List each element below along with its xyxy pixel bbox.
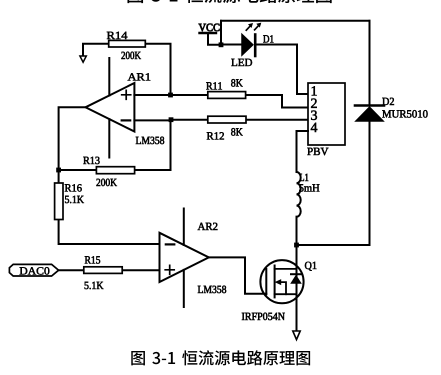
wire LED cathode xyxy=(255,44,297,46)
node VCC junction xyxy=(219,42,224,47)
value LM358 (AR1) xyxy=(136,137,141,144)
diode D2 xyxy=(355,21,428,245)
wire drain node to D2 xyxy=(297,244,370,246)
value 200K (R13) xyxy=(96,179,100,186)
net label VCC xyxy=(199,24,206,31)
wire LED anode xyxy=(221,44,242,46)
arrow terminal (R14 left) xyxy=(80,56,86,62)
node AR1 + input junction xyxy=(168,93,173,98)
resistor R12 xyxy=(171,116,308,139)
transistor Q1 xyxy=(242,245,317,340)
wire VCC vertical xyxy=(220,21,222,45)
value LM358 (AR2) xyxy=(198,286,203,293)
designator R16 xyxy=(65,184,72,191)
arrow terminal (Q1 source to ground) xyxy=(293,331,300,340)
designator R15 xyxy=(85,256,91,263)
node AR1 - input junction xyxy=(169,117,174,122)
node drain junction xyxy=(294,243,299,248)
wire AR1 + input xyxy=(134,94,168,96)
resistor R15 xyxy=(59,256,160,289)
designator AR2 xyxy=(198,223,206,230)
pin 1 xyxy=(312,86,317,95)
value 200K (R14) xyxy=(121,52,125,59)
value 8K (R12) xyxy=(231,128,235,135)
designator R14 xyxy=(107,32,115,39)
value IRFP054N (Q1) xyxy=(242,313,245,320)
wire AR1 output xyxy=(59,107,86,170)
connector PBV xyxy=(307,83,345,155)
wire to pin 1 xyxy=(297,45,308,95)
wire R11 to pin 2 xyxy=(282,95,308,108)
caption top cut-off xyxy=(127,0,331,3)
node AR1 output junction xyxy=(56,168,61,173)
op-amp AR2 xyxy=(160,209,227,308)
resistor R13 xyxy=(59,120,171,186)
wire AR1 - input xyxy=(134,119,168,121)
LED D1 xyxy=(231,23,273,66)
designator R13 xyxy=(83,157,89,164)
op-amp AR1 xyxy=(86,58,165,158)
wire top rail xyxy=(221,20,370,22)
wire AR2 output to gate xyxy=(209,257,266,293)
connector label PBV xyxy=(307,148,312,155)
inductor L1 xyxy=(297,172,320,217)
designator AR1 xyxy=(128,73,137,80)
power VCC symbol xyxy=(199,24,221,45)
resistor R11 xyxy=(171,79,283,98)
value label LED xyxy=(231,59,237,66)
resistor R14 xyxy=(80,32,171,92)
net label DAC0 xyxy=(20,267,28,274)
caption bottom xyxy=(131,350,310,365)
value MUR5010 (D2) xyxy=(382,110,391,117)
value 5.1K (R16) xyxy=(65,196,69,203)
designator R11 xyxy=(206,82,212,89)
designator Q1 xyxy=(305,262,312,271)
pin 2 xyxy=(311,99,317,108)
designator D1 xyxy=(263,35,269,42)
pin 4 xyxy=(311,123,318,132)
value 5.1K (R15) xyxy=(85,282,89,289)
designator D2 xyxy=(382,98,389,105)
port DAC0 xyxy=(9,264,58,276)
resistor R16 xyxy=(55,170,160,244)
wire pin 4 to L1 xyxy=(297,131,309,172)
designator L1 xyxy=(300,174,304,181)
pin 3 xyxy=(311,111,317,120)
designator R12 xyxy=(207,132,214,139)
wire L1 to drain node xyxy=(296,217,298,245)
value 5mH (L1) xyxy=(299,184,303,191)
value 8K (R11) xyxy=(231,79,235,86)
